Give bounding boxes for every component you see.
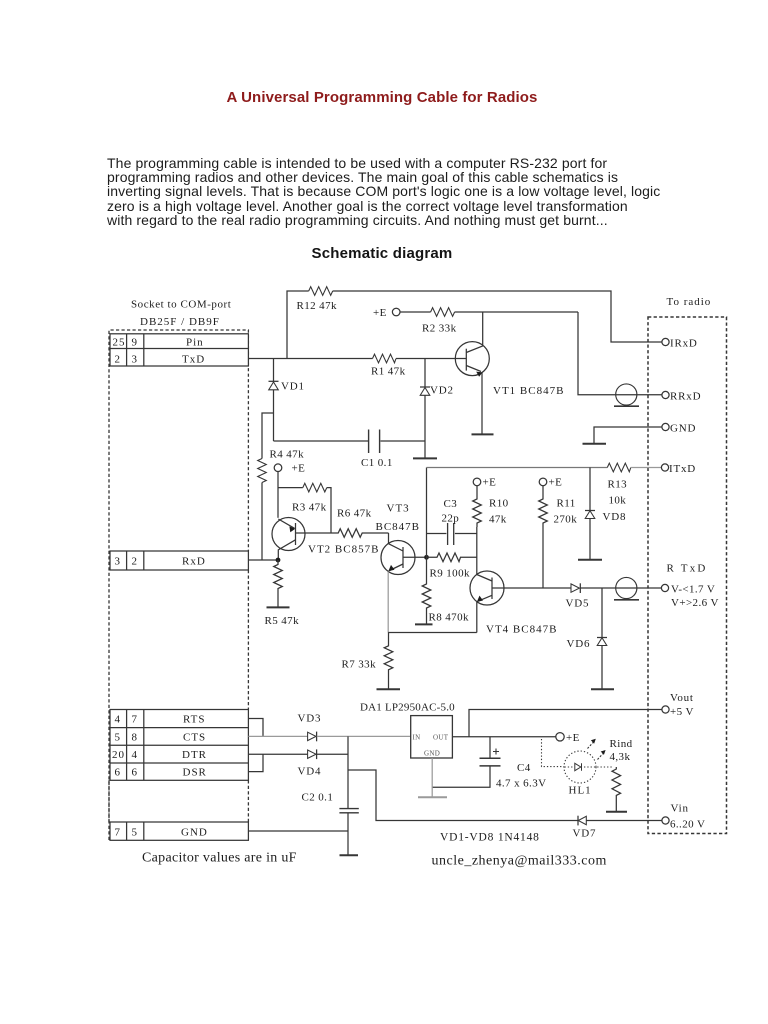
svg-text:DSR: DSR (183, 767, 207, 779)
svg-text:R8 470k: R8 470k (429, 612, 469, 624)
wire R11 to VT4 base rail (542, 527, 544, 588)
terminal ITxD (661, 463, 696, 475)
wire VT4 emitter (476, 602, 478, 633)
diode VD5 (566, 583, 590, 609)
resistor R3 (292, 483, 327, 513)
svg-text:5: 5 (115, 731, 122, 743)
svg-text:VT2 BC857B: VT2 BC857B (308, 544, 379, 556)
svg-text:TxD: TxD (182, 353, 205, 365)
capacitor C4 (432, 737, 546, 790)
svg-text:R11: R11 (557, 498, 576, 510)
svg-text:BC847B: BC847B (376, 521, 421, 533)
svg-text:4: 4 (132, 749, 139, 761)
ground DA1 (418, 796, 447, 798)
wire DSR (248, 754, 263, 771)
svg-text:VD5: VD5 (566, 598, 590, 610)
wire VT3 emitter (387, 572, 389, 633)
svg-text:9: 9 (132, 336, 139, 348)
svg-text:2: 2 (115, 353, 122, 365)
svg-text:4,3k: 4,3k (610, 751, 631, 763)
svg-text:VD3: VD3 (298, 713, 322, 725)
wire RxD from socket (248, 559, 278, 561)
svg-text:8: 8 (132, 731, 139, 743)
svg-text:5: 5 (132, 827, 139, 839)
wire DA1 GND pin (431, 758, 433, 797)
svg-text:RTS: RTS (183, 714, 206, 726)
terminal RRxD (662, 390, 701, 402)
svg-text:GND: GND (181, 827, 208, 839)
svg-text:RxD: RxD (182, 555, 206, 567)
ground VD8 (578, 559, 602, 561)
resistor R4 (258, 449, 304, 483)
svg-text:OUT: OUT (433, 734, 449, 742)
svg-text:+E: +E (373, 307, 387, 319)
wire R13 to ITxD (631, 467, 662, 469)
wire Vout riser (469, 710, 662, 737)
svg-text:3: 3 (115, 555, 122, 567)
power +E terminal (VT2) (274, 463, 305, 475)
regulator DA1 (360, 702, 455, 759)
svg-text:Vout: Vout (670, 692, 694, 704)
svg-text:2: 2 (132, 555, 139, 567)
socket header label (131, 299, 231, 329)
pin table RxD row (110, 551, 248, 570)
wire jog to R4 (262, 413, 274, 459)
svg-text:HL1: HL1 (569, 785, 592, 797)
wire +E to VT2 emitter (277, 472, 279, 518)
To radio dashed box (648, 317, 727, 834)
resistor R7 (342, 633, 393, 690)
wire Vin feed (348, 770, 578, 821)
svg-text:+5 V: +5 V (670, 706, 694, 718)
svg-text:RRxD: RRxD (670, 390, 701, 402)
svg-text:R9 100k: R9 100k (430, 568, 470, 580)
resistor R13 (607, 463, 631, 506)
resistor R2 (422, 308, 457, 335)
svg-text:R TxD: R TxD (667, 563, 708, 575)
cable jumper symbol (RRxD) (614, 384, 639, 406)
svg-text:VD7: VD7 (573, 828, 597, 840)
ground Rind (606, 811, 627, 813)
wire R12 to IRxD (333, 291, 662, 342)
svg-text:+E: +E (483, 477, 497, 489)
wire VD4 to node (317, 753, 348, 755)
svg-text:VT3: VT3 (387, 503, 410, 515)
junction RxD node (276, 558, 281, 563)
svg-text:3: 3 (132, 353, 139, 365)
svg-text:R10: R10 (489, 498, 509, 510)
svg-text:+E: +E (566, 732, 580, 744)
resistor R6 (331, 508, 389, 538)
transistor VT4 (470, 571, 571, 636)
resistor R10 (473, 486, 509, 527)
ground R5 (267, 606, 290, 608)
svg-text:4: 4 (115, 714, 122, 726)
resistor R8 (422, 555, 469, 624)
transistor VT3 (376, 503, 425, 575)
power +E terminal (R10) (473, 477, 496, 489)
svg-text:V+>2.6 V: V+>2.6 V (671, 597, 719, 609)
svg-text:DTR: DTR (182, 749, 207, 761)
terminal Vin (662, 803, 705, 831)
svg-text:R6 47k: R6 47k (337, 508, 372, 520)
svg-text:6: 6 (115, 767, 122, 779)
svg-text:GND: GND (424, 749, 440, 757)
resistor R12 (297, 287, 337, 312)
svg-text:4.7 x 6.3V: 4.7 x 6.3V (496, 778, 546, 790)
wire R2 to RRxD drop (455, 311, 578, 313)
svg-text:VD4: VD4 (298, 766, 322, 778)
pin table GND row (110, 822, 248, 840)
wire R3 to base node (327, 488, 331, 533)
diode VD6 (567, 588, 608, 689)
resistor Rind (610, 738, 633, 812)
wire R1 to VT1 base (396, 358, 466, 360)
terminal GND (662, 422, 696, 434)
svg-text:C3: C3 (444, 498, 458, 510)
diode VD2 (420, 359, 454, 459)
capacitor C3 (427, 498, 477, 545)
LED HL1 (542, 739, 614, 797)
power +E terminal (R2) (373, 307, 400, 319)
svg-text:CTS: CTS (183, 731, 206, 743)
terminal IRxD (662, 338, 698, 350)
svg-text:C2 0.1: C2 0.1 (302, 792, 334, 804)
wire emitter rail (388, 632, 477, 634)
svg-text:V-<1.7 V: V-<1.7 V (671, 583, 715, 595)
pin table Pin/TxD rows (110, 334, 248, 366)
wire GND row (248, 830, 348, 832)
wire DTR (248, 753, 307, 755)
svg-text:DA1 LP2950AC-5.0: DA1 LP2950AC-5.0 (360, 702, 455, 714)
diode VD7 (573, 816, 597, 840)
svg-text:22p: 22p (442, 513, 460, 525)
resistor R11 (539, 486, 577, 527)
diode VD1 (269, 359, 305, 442)
svg-text:GND: GND (670, 422, 696, 434)
wire VD1 to C1 (274, 440, 369, 442)
pin table RTS/CTS/DTR/DSR rows (110, 710, 248, 781)
wire TxD up to R12 (287, 291, 309, 359)
wire C1 to VD2 line (381, 440, 426, 442)
svg-text:10k: 10k (609, 495, 627, 507)
ground R7 (377, 688, 401, 690)
svg-text:IN: IN (413, 734, 421, 742)
svg-text:VD8: VD8 (603, 511, 627, 523)
wire OUT rail (452, 736, 555, 738)
COM-port socket dashed outline (109, 330, 248, 840)
diode VD4 (298, 749, 322, 777)
svg-text:+E: +E (549, 477, 563, 489)
cable jumper symbol (RTxD) (614, 577, 639, 599)
wire GND terminal (594, 427, 662, 444)
diode VD8 (585, 468, 626, 560)
wire CTS (248, 735, 307, 737)
svg-text:R7 33k: R7 33k (342, 659, 377, 671)
svg-text:uncle_zhenya@mail333.com: uncle_zhenya@mail333.com (432, 854, 607, 869)
svg-text:VT4 BC847B: VT4 BC847B (486, 624, 557, 636)
svg-text:VD6: VD6 (567, 638, 591, 650)
svg-text:270k: 270k (554, 514, 578, 526)
svg-text:20: 20 (112, 749, 125, 761)
ground VD2 (413, 457, 437, 459)
svg-text:R5 47k: R5 47k (265, 615, 300, 627)
terminal Vout (662, 692, 694, 718)
resistor R9 (427, 553, 477, 580)
svg-text:DB25F / DB9F: DB25F / DB9F (140, 316, 220, 328)
ground R8 (415, 623, 433, 625)
svg-text:Pin: Pin (186, 336, 204, 348)
svg-text:25: 25 (113, 336, 126, 348)
svg-text:Capacitor values are in uF: Capacitor values are in uF (142, 851, 297, 866)
svg-text:6..20 V: 6..20 V (670, 819, 705, 831)
svg-text:R1 47k: R1 47k (371, 366, 406, 378)
svg-text:7: 7 (115, 827, 122, 839)
wire VT1 emitter (481, 373, 483, 435)
wire ITxD run (427, 467, 608, 469)
svg-text:R13: R13 (608, 479, 628, 491)
svg-text:R2 33k: R2 33k (422, 323, 457, 335)
wire VD3 to DA1 (317, 735, 411, 737)
svg-text:47k: 47k (489, 514, 507, 526)
svg-text:ITxD: ITxD (669, 463, 696, 475)
svg-text:VT1 BC847B: VT1 BC847B (493, 385, 564, 397)
svg-text:Rind: Rind (610, 738, 633, 750)
diode VD3 (298, 713, 322, 742)
svg-text:C4: C4 (517, 762, 531, 774)
svg-text:To radio: To radio (667, 296, 712, 308)
svg-text:R3 47k: R3 47k (292, 502, 327, 514)
transistor VT2 (272, 518, 379, 561)
wire R10 to VT4 collector (476, 527, 478, 575)
svg-text:Vin: Vin (671, 803, 689, 815)
ground GND-terminal (583, 443, 607, 445)
ground VD6 (591, 688, 614, 690)
wire ITxD line down to base node (426, 468, 428, 556)
wire to RRxD (578, 312, 662, 395)
svg-text:6: 6 (132, 767, 139, 779)
power +E terminal (R11) (539, 477, 562, 489)
transistor VT1 (455, 342, 564, 397)
wire to R3 (278, 487, 303, 489)
capacitor C2 (302, 792, 359, 856)
svg-text:C1 0.1: C1 0.1 (361, 457, 393, 469)
capacitor C1 (361, 430, 393, 470)
resistor R5 (265, 560, 300, 627)
wire RTS (248, 719, 263, 737)
svg-text:7: 7 (132, 714, 139, 726)
wire +E to R2 (400, 311, 431, 313)
wire R4 to RxD node (261, 483, 263, 561)
svg-text:+E: +E (292, 463, 306, 475)
wire R6 to VT3 collector (388, 533, 390, 544)
wire VT1 collector (466, 312, 482, 353)
svg-text:VD1: VD1 (281, 381, 305, 393)
svg-text:VD1-VD8 1N4148: VD1-VD8 1N4148 (440, 832, 540, 844)
svg-text:Socket to COM-port: Socket to COM-port (131, 299, 231, 311)
wire TxD from socket (248, 358, 372, 360)
ground VT1 (472, 433, 494, 435)
resistor R1 (371, 354, 406, 377)
ground C2 (340, 854, 359, 856)
wire VD7 to Vin (587, 820, 662, 822)
junction VT3 base node (424, 555, 429, 560)
wire node drop to C2 (347, 736, 349, 808)
wire VD5 to jumper (581, 587, 662, 589)
svg-text:R12 47k: R12 47k (297, 300, 337, 312)
svg-text:IRxD: IRxD (670, 338, 698, 350)
svg-text:VD2: VD2 (430, 385, 454, 397)
terminal RTxD (661, 563, 718, 609)
power +E terminal (out) (556, 732, 580, 744)
svg-text:R4 47k: R4 47k (270, 449, 305, 461)
